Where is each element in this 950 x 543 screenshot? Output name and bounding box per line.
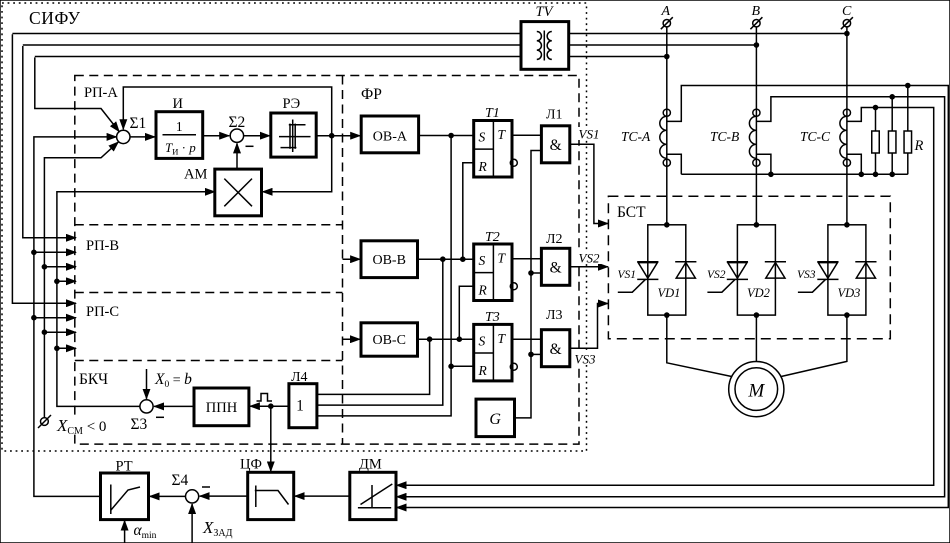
wire sync phase A to RP-A sum1	[35, 56, 667, 58]
wire Xsm bus up to sum1	[44, 142, 118, 418]
svg-text:VS3: VS3	[575, 352, 596, 367]
wire TC-C secondary top to DM	[397, 108, 934, 486]
svg-text:ТС-В: ТС-В	[710, 129, 739, 144]
RP outer dashed box	[75, 76, 579, 445]
wire PPN to sum3	[154, 405, 194, 407]
thyristor pair frame 3	[828, 225, 866, 315]
dashed divider vertical RP/FR	[342, 76, 344, 445]
svg-text:Σ2: Σ2	[229, 114, 246, 131]
wire AM to sum2	[236, 143, 238, 169]
wire RT output bus up to sum1	[34, 137, 117, 497]
wire secondary bottom bus	[681, 173, 908, 175]
wire RE output to OV-A	[316, 135, 360, 137]
wire phase A vertical	[666, 27, 668, 225]
wire Xsm bus branch to RP-C	[44, 331, 76, 333]
wire sync phase B to RP-B	[23, 44, 757, 46]
wire OV-B to L4	[317, 259, 443, 405]
dashed divider RP-C/BKCH	[75, 360, 343, 362]
wire RT bus branch to RP-B	[34, 251, 76, 253]
svg-text:АМ: АМ	[184, 167, 207, 183]
wire TC-B secondary top to DM	[397, 97, 945, 497]
wire G branch to L2	[531, 272, 541, 274]
wire DM to CF	[295, 495, 350, 497]
svg-text:ДМ: ДМ	[359, 457, 382, 473]
svg-text:ФР: ФР	[361, 86, 382, 103]
wire OV-C to L4	[317, 339, 430, 394]
motor M	[729, 362, 784, 417]
svg-text:Л4: Л4	[291, 370, 308, 385]
svg-text:И: И	[173, 96, 184, 112]
wire alpha min arrow into RT	[124, 521, 126, 543]
svg-text:&: &	[550, 137, 562, 154]
wire L4 junction down to CF	[270, 406, 272, 471]
summing junction S3	[140, 400, 153, 413]
svg-text:ОВ-С: ОВ-С	[372, 333, 405, 348]
svg-text:1: 1	[176, 119, 183, 134]
svg-text:A: A	[661, 4, 671, 19]
wire OV-A output to T1.S	[419, 135, 474, 137]
wire sum4 to RT	[150, 495, 186, 497]
block OV-B	[361, 241, 418, 278]
svg-text:РТ: РТ	[116, 459, 133, 475]
relay element RE	[271, 113, 316, 157]
wire TC-B secondary bottom to bus	[756, 154, 771, 174]
svg-text:ППН: ППН	[206, 400, 238, 416]
generator G	[476, 399, 515, 437]
wire CF to sum4	[200, 495, 248, 497]
svg-text:VS1: VS1	[618, 269, 637, 281]
wire RE feedback to sum1	[123, 87, 331, 136]
svg-text:РЭ: РЭ	[283, 96, 301, 112]
wire G bus to gates	[515, 151, 542, 418]
flip-flop T3	[474, 324, 512, 381]
resistor R3	[904, 131, 912, 153]
block OV-A	[361, 116, 418, 153]
wire pair3 output to motor	[781, 315, 847, 377]
svg-text:ТС-С: ТС-С	[800, 129, 831, 144]
wire pair1 output to motor	[667, 315, 732, 377]
block OV-C	[361, 323, 418, 356]
wire OV-C output to T3.S	[418, 338, 474, 340]
svg-text:VD2: VD2	[747, 286, 770, 300]
dashed divider RP-B/RP-C	[75, 292, 343, 294]
wire L3 output VS3 to BST	[570, 304, 608, 349]
wire L4 to PPN	[250, 405, 289, 407]
wire OV-B to T1.R	[463, 163, 474, 259]
svg-text:Л1: Л1	[546, 108, 563, 123]
thyristor VS2	[727, 261, 748, 263]
block CF	[248, 472, 294, 519]
wire L2 output VS2 to BST	[570, 266, 608, 268]
summing junction S2	[230, 129, 243, 142]
svg-text:S: S	[479, 130, 486, 145]
svg-text:VD3: VD3	[838, 286, 861, 300]
wire TC-A secondary top to DM	[397, 86, 949, 508]
wire X0 arrow into sum3	[146, 369, 148, 399]
wire T1 to L1	[512, 134, 541, 136]
BST dashed box	[608, 196, 890, 339]
wire Xsm bus branch to RP-B	[44, 266, 76, 268]
svg-text:Σ4: Σ4	[172, 472, 189, 489]
wire sum1 to I	[130, 136, 155, 138]
wire RT bus branch to RP-C	[34, 317, 76, 319]
dashed divider RP-A/RP-B	[75, 224, 343, 226]
svg-text:TV: TV	[536, 4, 555, 20]
svg-text:B: B	[752, 4, 761, 19]
wire L1 output VS1 to BST	[570, 144, 608, 223]
svg-text:X0 = b: X0 = b	[154, 371, 192, 390]
wire OV-A bus down to T3.R and L4	[317, 136, 451, 416]
multiplier AM	[215, 169, 262, 216]
svg-text:TИ · p: TИ · p	[165, 140, 196, 157]
wire G branch to L3	[531, 353, 541, 355]
svg-text:M: M	[747, 381, 765, 402]
thyristor VS1	[637, 261, 658, 263]
gate L2	[541, 248, 569, 285]
wire RP-B output to OV-B	[343, 258, 361, 260]
wire phase C vertical	[846, 27, 848, 225]
svg-text:T2: T2	[485, 230, 500, 245]
svg-text:РП-В: РП-В	[86, 238, 119, 254]
transformer TC-A winding	[660, 116, 667, 158]
pulse symbol	[257, 394, 273, 402]
wire TC-A secondary bottom to bus	[667, 154, 682, 174]
svg-text:G: G	[489, 411, 501, 428]
label Xsm < 0	[55, 415, 122, 434]
svg-text:R: R	[478, 283, 488, 298]
thyristor VS3	[817, 261, 838, 263]
wire sync phase C to RP-C	[12, 33, 847, 35]
wire OV-B output to T2.S	[418, 258, 474, 260]
svg-text:Σ1: Σ1	[130, 115, 147, 132]
svg-text:R: R	[914, 138, 924, 154]
svg-text:XЗАД: XЗАД	[202, 518, 233, 539]
svg-text:VS2: VS2	[579, 251, 600, 266]
svg-text:S: S	[479, 253, 486, 268]
wire T2 to L2	[512, 258, 541, 260]
svg-text:VS1: VS1	[579, 127, 600, 142]
svg-text:T3: T3	[485, 310, 500, 325]
svg-text:РП-С: РП-С	[86, 304, 119, 320]
svg-text:VD1: VD1	[658, 286, 681, 300]
svg-text:БКЧ: БКЧ	[79, 371, 108, 388]
resistor R1	[872, 131, 880, 153]
wire I to sum2	[203, 135, 230, 137]
wire sum3 bus branch to RP-B	[57, 280, 76, 282]
diode VD2	[765, 261, 786, 263]
SIFU dotted frame	[2, 3, 587, 451]
block RT	[101, 473, 149, 520]
svg-text:ТС-А: ТС-А	[621, 129, 651, 144]
wire TC-C secondary bottom to bus	[847, 154, 861, 174]
svg-text:S: S	[479, 333, 486, 348]
transformer TC-C winding	[840, 116, 847, 158]
thyristor pair frame 1	[648, 225, 686, 315]
wire RP-C output to OV-C	[343, 338, 361, 340]
wire pair2 output to motor	[755, 315, 757, 361]
svg-text:R: R	[478, 159, 488, 174]
svg-text:T1: T1	[485, 106, 500, 121]
svg-text:VS2: VS2	[707, 269, 726, 281]
block DM	[350, 472, 396, 519]
transformer TC-B winding	[749, 116, 756, 158]
svg-text:Л2: Л2	[546, 232, 563, 247]
svg-text:СИФУ: СИФУ	[29, 8, 81, 28]
wire OV-C to T2.R	[459, 286, 473, 339]
svg-text:C: C	[842, 4, 852, 19]
wire phase B vertical	[755, 27, 757, 225]
svg-text:αmin: αmin	[134, 522, 157, 541]
svg-text:1: 1	[296, 398, 304, 415]
wire Xzad arrow into sum4	[191, 504, 193, 543]
summing junction S4	[186, 490, 199, 503]
integrator I	[156, 112, 203, 159]
gate L1	[541, 126, 569, 163]
svg-text:ЦФ: ЦФ	[240, 457, 262, 473]
terminal phase B	[753, 20, 760, 27]
svg-text:&: &	[550, 260, 562, 277]
flip-flop T2	[474, 244, 512, 301]
wire to T3.R	[451, 365, 474, 367]
svg-text:ОВ-А: ОВ-А	[373, 130, 408, 145]
flip-flop T1	[474, 121, 512, 178]
svg-text:БСТ: БСТ	[617, 204, 646, 221]
svg-text:РП-А: РП-А	[84, 85, 118, 101]
svg-text:&: &	[550, 341, 562, 358]
transformer TV	[521, 22, 569, 70]
svg-text:Σ3: Σ3	[131, 416, 148, 433]
diode VD1	[675, 261, 696, 263]
diode VD3	[855, 261, 876, 263]
resistor R2	[888, 131, 896, 153]
gate L4	[289, 384, 317, 428]
wire RE to AM input	[263, 136, 332, 192]
terminal phase C	[843, 20, 850, 27]
svg-text:Л3: Л3	[546, 308, 563, 323]
gate L3	[541, 330, 569, 367]
wire sum3 output bus up to AM	[57, 192, 215, 407]
block PPN	[194, 388, 249, 426]
wire T3 to L3	[512, 338, 541, 340]
svg-text:R: R	[478, 363, 488, 378]
svg-text:VS3: VS3	[797, 269, 816, 281]
terminal Xsm	[41, 418, 49, 426]
terminal phase A	[663, 20, 670, 27]
thyristor pair frame 2	[737, 225, 775, 315]
wire sum2 to RE	[244, 135, 270, 137]
svg-text:ОВ-В: ОВ-В	[372, 253, 405, 268]
summing junction S1	[117, 130, 130, 143]
wire sum3 bus branch to RP-C	[57, 347, 76, 349]
